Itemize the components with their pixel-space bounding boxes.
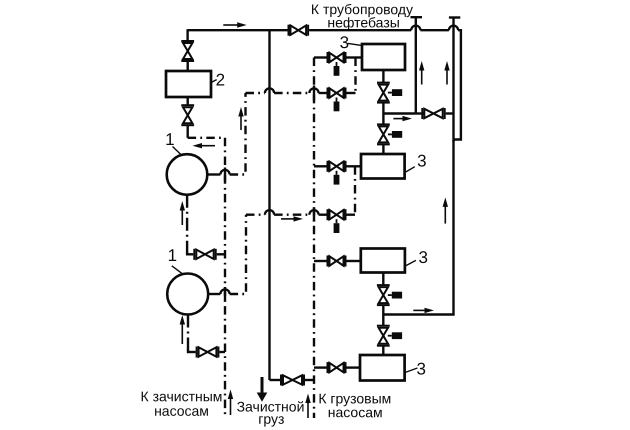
svg-text:3: 3 — [340, 33, 349, 52]
svg-text:груз: груз — [258, 411, 284, 427]
svg-text:насосам: насосам — [154, 403, 209, 419]
svg-text:2: 2 — [216, 70, 225, 89]
svg-text:1: 1 — [165, 130, 174, 149]
svg-text:1: 1 — [168, 246, 177, 265]
svg-text:3: 3 — [416, 359, 425, 378]
svg-text:нефтебазы: нефтебазы — [327, 14, 399, 30]
svg-text:3: 3 — [417, 151, 426, 170]
svg-text:3: 3 — [418, 248, 427, 267]
svg-text:насосам: насосам — [328, 404, 383, 420]
